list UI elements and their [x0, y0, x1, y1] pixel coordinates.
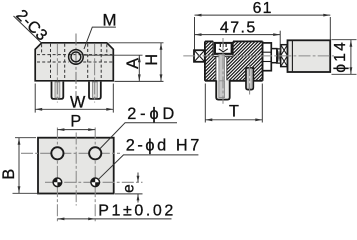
- knob end cap line: [291, 41, 293, 71]
- dowel centerline: [249, 64, 251, 95]
- hidden bore line horizontal lower: [37, 61, 112, 63]
- centerline right stud: [94, 44, 96, 103]
- dimension H line: [160, 43, 163, 82]
- nose pin: [194, 50, 205, 62]
- neck: [277, 49, 281, 63]
- centerline main vertical front view: [75, 34, 77, 104]
- screw centerline: [222, 38, 224, 104]
- dimension T line: [205, 118, 262, 121]
- dimension e extension bottom: [115, 193, 143, 195]
- screw stud below block: [216, 80, 230, 99]
- svg-text:2-ϕd H7: 2-ϕd H7: [126, 137, 202, 155]
- svg-text:ϕ14: ϕ14: [332, 40, 349, 73]
- screw head section: [215, 43, 232, 54]
- base plate: [38, 138, 114, 194]
- dimension 61 extension right: [329, 17, 331, 40]
- screw shank: [219, 55, 225, 81]
- left stud (screw end): [52, 82, 64, 99]
- dimension T extension right: [261, 84, 263, 123]
- screw clearance hole walls: [216, 57, 227, 81]
- svg-text:P1±0.02: P1±0.02: [98, 203, 176, 220]
- centerline horizontal bottom holes: [45, 181, 143, 183]
- label 2-phiD underline: [125, 122, 177, 124]
- tapped hole M inner circle: [71, 52, 81, 62]
- dimension e line with outside arrows: [137, 173, 140, 203]
- svg-text:61: 61: [253, 0, 273, 17]
- dimension P line: [57, 128, 95, 131]
- dimension 47.5 extension right: [279, 31, 281, 51]
- svg-text:H: H: [143, 54, 161, 66]
- dimension T extension left: [204, 84, 206, 123]
- dimension A line: [138, 55, 141, 81]
- leader 2-C3: [14, 16, 42, 43]
- right stud thread lines: [93, 82, 98, 98]
- counterbore hole top-right (2-phiD): [89, 147, 101, 159]
- right stud (screw end): [89, 82, 101, 99]
- dimension 47.5 line: [195, 33, 281, 36]
- centerline left stud: [56, 44, 58, 103]
- centerline vertical right holes: [94, 128, 96, 223]
- shaft segment: [271, 49, 277, 63]
- dimension W extension right: [112, 84, 114, 113]
- hidden bore line horizontal upper: [37, 54, 112, 56]
- knurled collar: [281, 45, 288, 67]
- svg-text:B: B: [0, 169, 18, 180]
- dimension W extension left: [34, 84, 36, 113]
- svg-text:T: T: [229, 102, 239, 120]
- svg-text:47.5: 47.5: [220, 19, 257, 36]
- svg-text:P: P: [70, 113, 81, 131]
- dimension 61 extension left: [194, 17, 196, 50]
- tapped hole M outer circle: [69, 50, 84, 65]
- svg-text:M: M: [103, 11, 117, 30]
- counterbore hole top-left (2-phiD): [51, 147, 63, 159]
- left stud thread lines: [55, 82, 60, 98]
- hex nut: [263, 43, 272, 71]
- dimension 61 line: [195, 14, 331, 17]
- svg-text:W: W: [70, 94, 86, 112]
- main horizontal centerline: [183, 55, 334, 57]
- leader M: [84, 27, 116, 49]
- hidden hole lines (dashed) front view: [51, 44, 102, 80]
- dimension A extension top: [84, 54, 143, 56]
- knob: [288, 40, 331, 72]
- svg-text:2-ϕD: 2-ϕD: [127, 105, 178, 123]
- centerline horizontal top holes: [21, 152, 120, 154]
- dimension phi14 extension top: [332, 39, 357, 41]
- svg-text:A: A: [124, 58, 142, 69]
- counterbore walls: [213, 41, 233, 56]
- dimension H extension top: [109, 42, 164, 44]
- dowel hole bottom-right (2-phid H7): [91, 178, 100, 187]
- leader 2-phid H7: [99, 155, 124, 179]
- dimension W line: [35, 108, 113, 111]
- shared bottom extension (A,H): [115, 80, 164, 82]
- dimension B extension bottom: [13, 192, 41, 194]
- dowel hole bottom-left (2-phid H7): [53, 178, 62, 187]
- svg-text:e: e: [120, 184, 137, 193]
- leader 2-phiD: [100, 123, 125, 149]
- dimension P1 line with text shelf: [57, 218, 171, 221]
- dimension phi14 line: [350, 40, 353, 75]
- body block: [35, 43, 113, 81]
- centerline vertical middle: [75, 133, 77, 206]
- dowel pin: [246, 68, 253, 90]
- centerline vertical left holes: [56, 128, 58, 223]
- dimension B line: [18, 138, 21, 194]
- label 2-phid H7 underline: [123, 154, 198, 156]
- dimension B extension top: [15, 137, 36, 139]
- screw stud thread lines: [219, 81, 225, 98]
- hidden chamfer edge lines (dashed short): [42, 44, 107, 54]
- dimension phi14 extension bottom: [332, 73, 357, 75]
- block outline: [205, 41, 263, 80]
